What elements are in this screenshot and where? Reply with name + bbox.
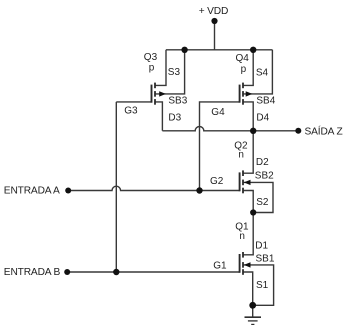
svg-text:S2: S2 (256, 197, 269, 208)
wire: VDD stem (214, 21, 216, 50)
node: SAIDA Z terminal dot (295, 128, 301, 134)
wire SB1: Q1 bulk loop down to S1 node (243, 265, 274, 305)
transistor Q3 gate bar (151, 85, 153, 103)
transistor Q2 channel ticks (242, 170, 244, 176)
transistor Q4 channel ticks (242, 83, 244, 89)
Q1 bulk arrow (NMOS, points left) (244, 262, 251, 267)
wire G4 lead and vertical to input A line (200, 102, 240, 191)
wire: ENTRADA A line with hop over B-G3 vertical (68, 186, 239, 190)
node: S1/ground junction (249, 302, 256, 309)
wire G3 lead (116, 101, 151, 103)
node: VDD terminal dot (211, 18, 217, 24)
wire SB4: Q4 bulk to rail right end (243, 50, 272, 94)
wire S4: Q4 source to rail (243, 50, 253, 86)
wire D3: Q3 drain down to output line (155, 102, 162, 131)
wire D1: Q1 drain up to S2 node (243, 213, 253, 255)
svg-text:D1: D1 (255, 240, 268, 251)
wire S2: Q2 source down to node (243, 191, 253, 213)
wire SB2: Q2 bulk loop down to S2 node (243, 182, 273, 212)
wire: ENTRADA B line (67, 271, 240, 273)
transistor Q2 gate bar (239, 172, 241, 191)
svg-text:D2: D2 (256, 157, 269, 168)
svg-text:S1: S1 (256, 280, 269, 291)
svg-text:SB2: SB2 (255, 170, 274, 181)
svg-text:SB1: SB1 (256, 254, 275, 265)
svg-text:SAÍDA Z: SAÍDA Z (305, 125, 343, 138)
node: rail junction S4 (250, 47, 256, 53)
svg-text:p: p (241, 64, 247, 75)
wire S1: Q1 source down to ground node (243, 272, 253, 305)
svg-text:S4: S4 (256, 68, 269, 79)
svg-text:G2: G2 (210, 176, 224, 187)
svg-text:SB4: SB4 (256, 96, 275, 107)
node: ENTRADA B terminal dot (64, 269, 70, 275)
svg-text:G4: G4 (211, 107, 225, 118)
svg-text:n: n (239, 231, 245, 242)
node: ENTRADA A terminal dot (65, 188, 71, 194)
wire: ENTRADA B vertical riser to G3 (115, 102, 117, 272)
svg-text:G3: G3 (124, 106, 138, 117)
svg-text:D4: D4 (256, 113, 269, 124)
wire: ground stem (252, 305, 254, 316)
wire D2: Q2 drain up to output node (243, 131, 253, 173)
wire: VDD rail (166, 49, 272, 51)
node: rail junction SB3 (181, 47, 187, 53)
svg-text:n: n (238, 150, 244, 161)
svg-text:D3: D3 (168, 113, 181, 124)
Q2 bulk arrow (NMOS, points left) (244, 180, 251, 185)
node: G4 junction on A line (196, 187, 202, 193)
ground symbol (245, 316, 262, 318)
svg-text:ENTRADA A: ENTRADA A (4, 186, 60, 197)
transistor Q4 gate bar (239, 85, 241, 103)
svg-text:Q3: Q3 (144, 52, 158, 63)
wire D4: Q4 drain down to output node (243, 102, 253, 131)
wire SB3: Q3 bulk to rail (155, 50, 185, 94)
node: S2/D1 junction (250, 209, 256, 215)
node: B riser junction on B line (113, 269, 119, 275)
svg-text:p: p (149, 63, 155, 74)
svg-text:SB3: SB3 (168, 96, 187, 107)
transistor Q3 channel ticks (154, 83, 156, 89)
Q4 bulk arrow (PMOS, points right) (246, 91, 253, 96)
node: output junction D4/D2 (250, 128, 256, 134)
wire: output line SAIDA Z with hop over G4 vertical (162, 127, 298, 131)
transistor Q1 gate bar (239, 254, 241, 273)
svg-text:+ VDD: + VDD (199, 6, 229, 17)
Q3 bulk arrow (PMOS, points right) (159, 91, 166, 96)
transistor Q1 channel ticks (242, 252, 244, 258)
svg-text:S3: S3 (168, 67, 181, 78)
wire S3: Q3 source to rail (155, 50, 166, 86)
svg-text:ENTRADA B: ENTRADA B (4, 267, 61, 278)
svg-text:Q4: Q4 (236, 53, 250, 64)
svg-text:G1: G1 (213, 260, 227, 271)
